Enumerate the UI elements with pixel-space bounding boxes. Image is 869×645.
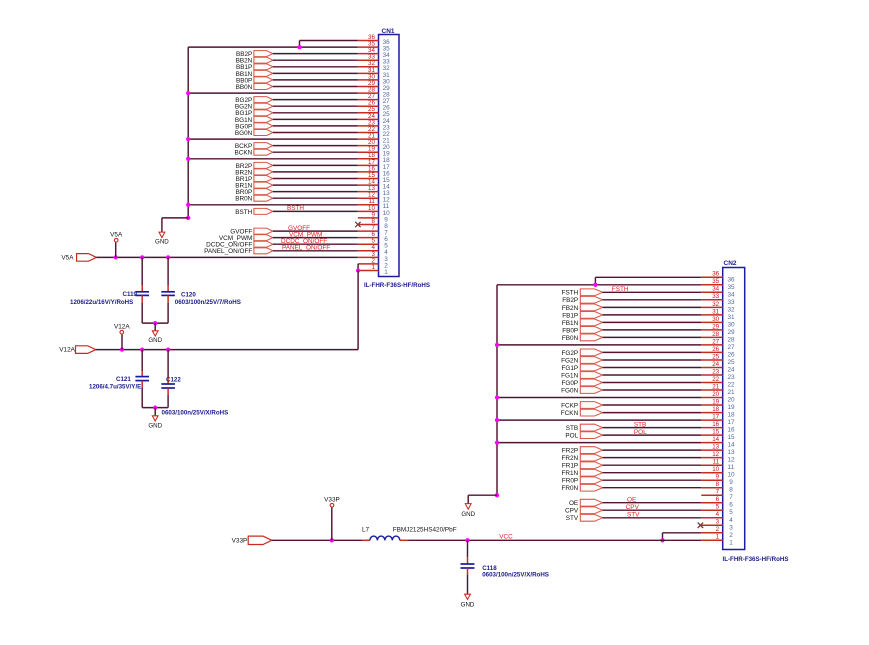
- svg-text:14: 14: [368, 179, 375, 186]
- svg-text:4: 4: [371, 244, 375, 251]
- svg-text:CN2: CN2: [724, 260, 737, 267]
- svg-text:28: 28: [712, 331, 719, 338]
- svg-text:20: 20: [728, 397, 736, 404]
- svg-text:25: 25: [728, 359, 736, 366]
- svg-text:C120: C120: [181, 292, 196, 299]
- svg-text:18: 18: [728, 412, 736, 419]
- svg-text:15: 15: [368, 172, 375, 179]
- svg-text:25: 25: [383, 111, 391, 118]
- svg-text:8: 8: [716, 481, 720, 488]
- svg-text:15: 15: [728, 434, 736, 441]
- svg-text:11: 11: [728, 464, 735, 471]
- svg-text:1206/22u/16V/Y/RoHS: 1206/22u/16V/Y/RoHS: [70, 299, 133, 306]
- svg-text:15: 15: [383, 177, 391, 184]
- svg-text:CPV: CPV: [626, 504, 640, 511]
- svg-text:3: 3: [384, 256, 388, 263]
- svg-text:STV: STV: [566, 515, 579, 522]
- svg-text:13: 13: [383, 190, 391, 197]
- svg-text:FG2P: FG2P: [561, 350, 578, 357]
- svg-text:18: 18: [712, 406, 719, 413]
- svg-text:29: 29: [728, 329, 736, 336]
- svg-text:V33P: V33P: [324, 496, 340, 503]
- svg-text:16: 16: [712, 421, 719, 428]
- svg-text:23: 23: [383, 124, 391, 131]
- svg-text:C121: C121: [116, 376, 131, 383]
- svg-text:13: 13: [728, 449, 736, 456]
- svg-text:11: 11: [368, 198, 375, 205]
- svg-text:17: 17: [712, 414, 719, 421]
- svg-text:FCKP: FCKP: [561, 402, 578, 409]
- svg-text:3: 3: [371, 251, 375, 258]
- svg-text:12: 12: [728, 457, 736, 464]
- svg-text:6: 6: [729, 502, 733, 509]
- svg-text:10: 10: [728, 472, 736, 479]
- svg-text:17: 17: [383, 164, 391, 171]
- svg-text:STV: STV: [627, 512, 640, 519]
- svg-text:16: 16: [383, 170, 391, 177]
- svg-text:34: 34: [728, 291, 736, 298]
- svg-text:20: 20: [712, 391, 719, 398]
- svg-text:FR2P: FR2P: [562, 448, 578, 455]
- svg-text:POL: POL: [565, 433, 578, 440]
- svg-text:BB0N: BB0N: [236, 84, 253, 91]
- svg-text:0603/100n/25V/7/RoHS: 0603/100n/25V/7/RoHS: [175, 299, 241, 306]
- svg-text:10: 10: [712, 466, 719, 473]
- svg-text:5: 5: [384, 243, 388, 250]
- svg-text:GND: GND: [461, 511, 475, 518]
- svg-text:FB2P: FB2P: [562, 297, 578, 304]
- svg-text:35: 35: [383, 46, 391, 53]
- svg-text:FSTH: FSTH: [612, 286, 629, 293]
- svg-text:21: 21: [368, 133, 375, 140]
- svg-text:19: 19: [728, 404, 736, 411]
- svg-text:21: 21: [383, 138, 391, 145]
- svg-text:35: 35: [368, 41, 375, 48]
- svg-text:19: 19: [383, 151, 391, 158]
- svg-text:FR1N: FR1N: [561, 470, 578, 477]
- svg-text:18: 18: [383, 157, 391, 164]
- svg-text:PANEL_ON/OFF: PANEL_ON/OFF: [204, 248, 252, 255]
- svg-text:17: 17: [368, 159, 375, 166]
- svg-text:30: 30: [712, 316, 719, 323]
- svg-text:6: 6: [371, 231, 375, 238]
- svg-text:C122: C122: [166, 377, 181, 384]
- svg-text:FB0N: FB0N: [562, 335, 579, 342]
- svg-text:4: 4: [716, 511, 720, 518]
- svg-text:FR0N: FR0N: [561, 485, 578, 492]
- svg-text:22: 22: [383, 131, 391, 138]
- svg-text:18: 18: [368, 152, 375, 159]
- svg-text:9: 9: [716, 474, 720, 481]
- svg-text:10: 10: [368, 205, 375, 212]
- svg-text:STB: STB: [634, 421, 646, 428]
- svg-text:POL: POL: [634, 429, 647, 436]
- svg-text:21: 21: [728, 389, 736, 396]
- svg-text:2: 2: [371, 257, 375, 264]
- svg-text:24: 24: [728, 367, 736, 374]
- svg-text:11: 11: [383, 203, 390, 210]
- svg-text:1: 1: [729, 539, 733, 546]
- svg-text:IL-FHR-F36S-HF/RoHS: IL-FHR-F36S-HF/RoHS: [723, 556, 789, 563]
- svg-text:V12A: V12A: [114, 323, 130, 330]
- svg-text:V5A: V5A: [110, 231, 123, 238]
- svg-text:22: 22: [728, 382, 736, 389]
- svg-text:3: 3: [729, 524, 733, 531]
- svg-text:27: 27: [712, 338, 719, 345]
- svg-text:8: 8: [371, 218, 375, 225]
- svg-text:32: 32: [368, 60, 375, 67]
- svg-text:29: 29: [383, 85, 391, 92]
- svg-text:FG2N: FG2N: [561, 357, 578, 364]
- svg-text:16: 16: [368, 165, 375, 172]
- svg-text:33: 33: [383, 59, 391, 66]
- svg-text:C119: C119: [123, 291, 138, 298]
- svg-text:VCC: VCC: [499, 533, 513, 540]
- svg-text:FG1N: FG1N: [561, 372, 578, 379]
- svg-text:26: 26: [383, 105, 391, 112]
- svg-text:FG1P: FG1P: [561, 365, 578, 372]
- svg-text:27: 27: [368, 93, 375, 100]
- svg-text:24: 24: [368, 113, 375, 120]
- svg-text:1206/4.7u/35V/Y/E: 1206/4.7u/35V/Y/E: [89, 384, 141, 391]
- svg-text:35: 35: [712, 278, 719, 285]
- svg-text:FSTH: FSTH: [562, 290, 579, 297]
- svg-text:34: 34: [368, 47, 375, 54]
- svg-text:23: 23: [728, 374, 736, 381]
- svg-text:12: 12: [368, 192, 375, 199]
- svg-text:30: 30: [728, 321, 736, 328]
- svg-text:36: 36: [383, 39, 391, 46]
- svg-text:9: 9: [729, 479, 733, 486]
- svg-text:FG0N: FG0N: [561, 387, 578, 394]
- svg-text:FBMJ2125HS420/PbF: FBMJ2125HS420/PbF: [393, 527, 457, 534]
- svg-text:19: 19: [712, 398, 719, 405]
- svg-text:28: 28: [383, 92, 391, 99]
- svg-text:FCKN: FCKN: [561, 410, 579, 417]
- svg-text:0603/100n/25V/X/RoHS: 0603/100n/25V/X/RoHS: [162, 410, 229, 417]
- svg-text:7: 7: [371, 225, 375, 232]
- svg-text:31: 31: [728, 314, 736, 321]
- svg-text:6: 6: [716, 496, 720, 503]
- svg-text:BSTH: BSTH: [287, 205, 304, 212]
- svg-text:21: 21: [712, 383, 719, 390]
- svg-text:26: 26: [368, 100, 375, 107]
- svg-text:33: 33: [368, 54, 375, 61]
- svg-text:IL-FHR-F36S-HF/RoHS: IL-FHR-F36S-HF/RoHS: [364, 282, 430, 289]
- svg-text:4: 4: [729, 517, 733, 524]
- svg-text:16: 16: [728, 427, 736, 434]
- svg-text:19: 19: [368, 146, 375, 153]
- svg-text:OE: OE: [569, 500, 578, 507]
- svg-text:29: 29: [712, 323, 719, 330]
- svg-text:31: 31: [368, 67, 375, 74]
- svg-text:20: 20: [383, 144, 391, 151]
- svg-text:13: 13: [368, 185, 375, 192]
- svg-text:1: 1: [371, 264, 375, 271]
- svg-text:5: 5: [716, 504, 720, 511]
- svg-text:7: 7: [716, 489, 720, 496]
- svg-text:14: 14: [728, 442, 736, 449]
- svg-text:7: 7: [729, 494, 733, 501]
- svg-text:GND: GND: [148, 337, 162, 344]
- svg-text:23: 23: [368, 119, 375, 126]
- svg-text:14: 14: [383, 184, 391, 191]
- svg-text:36: 36: [712, 271, 719, 278]
- svg-text:31: 31: [712, 308, 719, 315]
- svg-text:GND: GND: [155, 238, 169, 245]
- svg-text:33: 33: [728, 299, 736, 306]
- svg-text:3: 3: [716, 519, 720, 526]
- svg-text:STB: STB: [566, 425, 578, 432]
- svg-text:GND: GND: [148, 422, 162, 429]
- svg-text:28: 28: [728, 336, 736, 343]
- svg-text:36: 36: [728, 276, 736, 283]
- svg-text:32: 32: [712, 301, 719, 308]
- svg-text:33: 33: [712, 293, 719, 300]
- svg-text:FB2N: FB2N: [562, 305, 579, 312]
- svg-text:22: 22: [712, 376, 719, 383]
- svg-text:30: 30: [383, 78, 391, 85]
- svg-text:L7: L7: [362, 527, 370, 534]
- svg-text:1: 1: [716, 534, 720, 541]
- svg-text:FR1P: FR1P: [562, 463, 578, 470]
- svg-text:25: 25: [368, 106, 375, 113]
- svg-text:23: 23: [712, 368, 719, 375]
- svg-text:27: 27: [728, 344, 736, 351]
- svg-text:32: 32: [383, 65, 391, 72]
- svg-text:12: 12: [383, 197, 391, 204]
- svg-text:4: 4: [384, 249, 388, 256]
- svg-text:V12A: V12A: [59, 347, 75, 354]
- svg-text:27: 27: [383, 98, 391, 105]
- svg-text:12: 12: [712, 451, 719, 458]
- svg-text:34: 34: [383, 52, 391, 59]
- svg-text:15: 15: [712, 429, 719, 436]
- svg-text:7: 7: [384, 230, 388, 237]
- svg-text:FR0P: FR0P: [562, 478, 578, 485]
- svg-text:20: 20: [368, 139, 375, 146]
- svg-text:OE: OE: [627, 497, 636, 504]
- svg-text:FB0P: FB0P: [562, 327, 578, 334]
- svg-text:BR0N: BR0N: [235, 196, 252, 203]
- svg-text:2: 2: [716, 526, 720, 533]
- svg-text:26: 26: [712, 346, 719, 353]
- svg-text:GND: GND: [461, 602, 475, 609]
- svg-text:5: 5: [729, 509, 733, 516]
- svg-text:CPV: CPV: [565, 508, 579, 515]
- svg-text:BSTH: BSTH: [235, 209, 252, 216]
- svg-text:FB1P: FB1P: [562, 312, 578, 319]
- svg-text:28: 28: [368, 87, 375, 94]
- svg-text:1: 1: [384, 269, 388, 276]
- svg-text:FR2N: FR2N: [561, 455, 578, 462]
- svg-text:13: 13: [712, 444, 719, 451]
- svg-text:25: 25: [712, 353, 719, 360]
- svg-text:14: 14: [712, 436, 719, 443]
- svg-text:34: 34: [712, 286, 719, 293]
- svg-text:0603/100n/25V/X/RoHS: 0603/100n/25V/X/RoHS: [482, 572, 549, 579]
- svg-text:36: 36: [368, 34, 375, 41]
- svg-text:BG0N: BG0N: [235, 130, 253, 137]
- svg-text:2: 2: [729, 532, 733, 539]
- svg-text:8: 8: [729, 487, 733, 494]
- svg-text:6: 6: [384, 236, 388, 243]
- svg-text:2: 2: [384, 262, 388, 269]
- svg-text:32: 32: [728, 306, 736, 313]
- svg-text:30: 30: [368, 73, 375, 80]
- svg-text:9: 9: [384, 216, 388, 223]
- svg-text:29: 29: [368, 80, 375, 87]
- svg-text:5: 5: [371, 238, 375, 245]
- svg-text:FG0P: FG0P: [561, 380, 578, 387]
- svg-text:8: 8: [384, 223, 388, 230]
- svg-text:FB1N: FB1N: [562, 320, 579, 327]
- svg-text:35: 35: [728, 284, 736, 291]
- svg-text:11: 11: [713, 459, 720, 466]
- svg-text:V5A: V5A: [61, 254, 74, 261]
- svg-text:31: 31: [383, 72, 391, 79]
- svg-text:24: 24: [383, 118, 391, 125]
- svg-text:10: 10: [383, 210, 391, 217]
- svg-text:BCKN: BCKN: [235, 150, 253, 157]
- svg-text:26: 26: [728, 351, 736, 358]
- svg-text:17: 17: [728, 419, 736, 426]
- svg-text:9: 9: [371, 211, 375, 218]
- svg-text:24: 24: [712, 361, 719, 368]
- svg-text:PANEL_ON/OFF: PANEL_ON/OFF: [282, 245, 330, 252]
- svg-text:V33P: V33P: [232, 537, 248, 544]
- svg-text:CN1: CN1: [382, 28, 395, 35]
- svg-text:22: 22: [368, 126, 375, 133]
